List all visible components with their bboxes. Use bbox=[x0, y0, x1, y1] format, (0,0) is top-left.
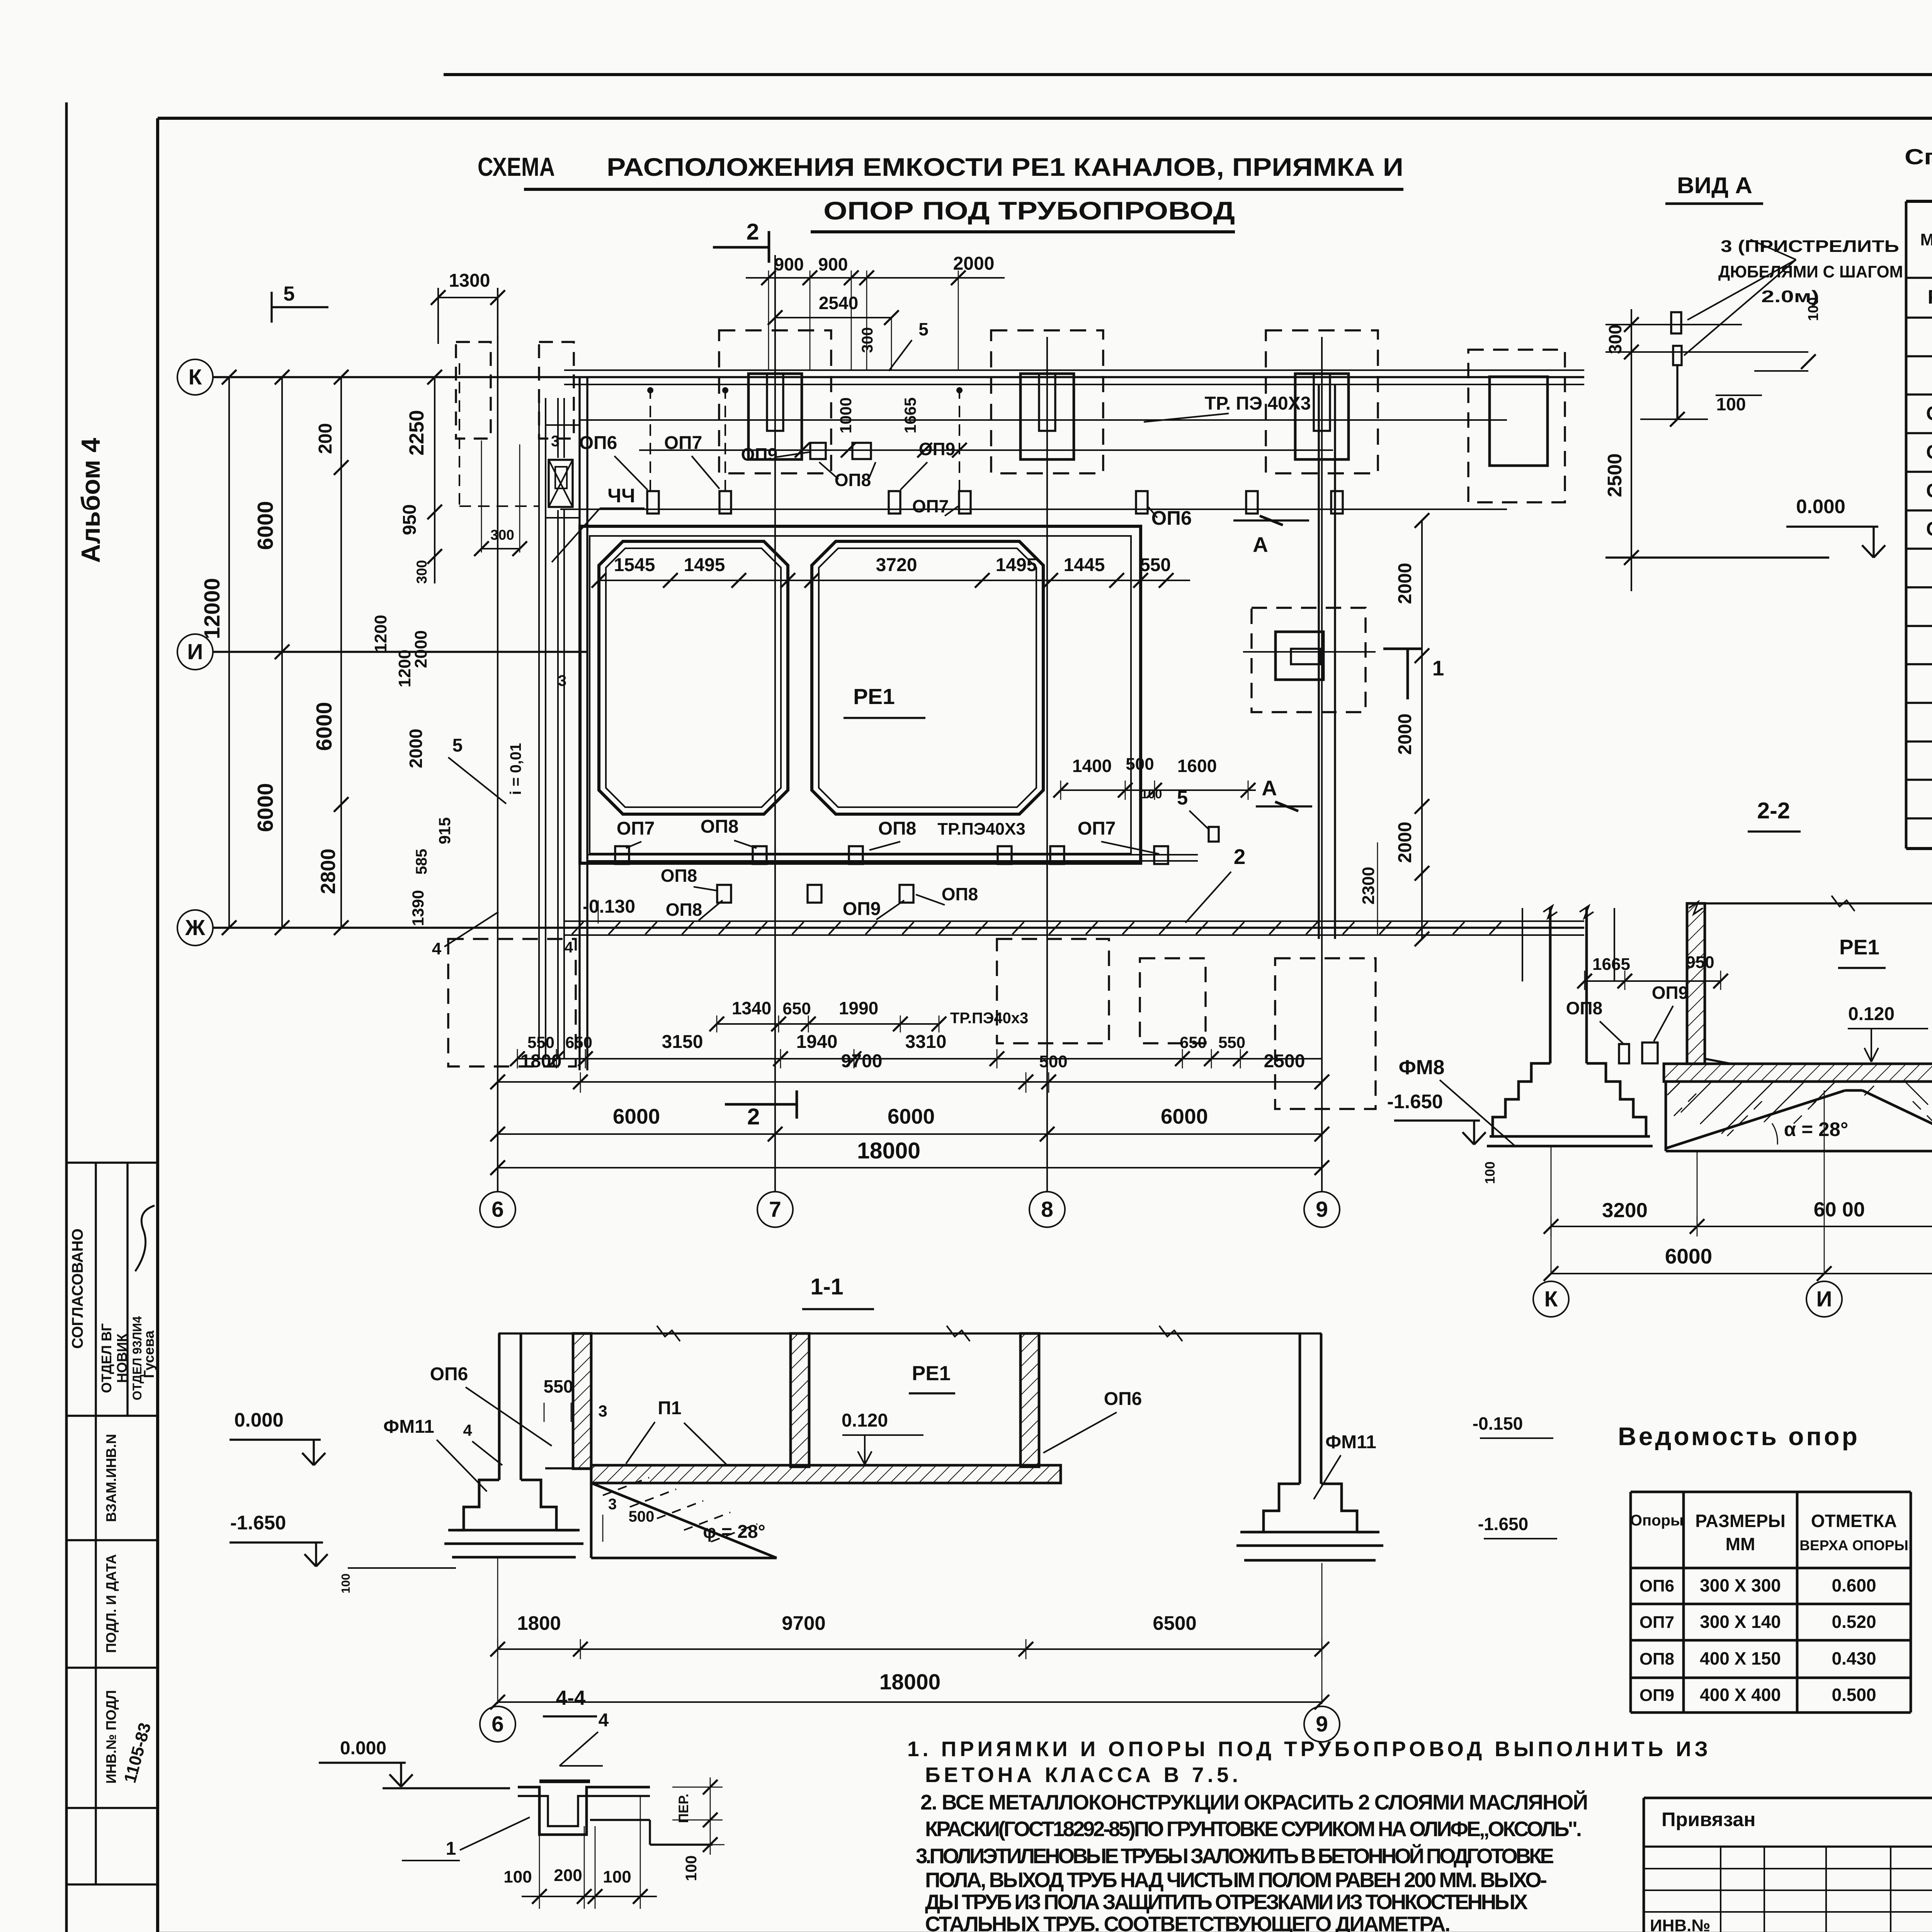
svg-text:А: А bbox=[1253, 532, 1268, 556]
svg-text:К: К bbox=[189, 365, 202, 389]
svg-text:Привязан: Привязан bbox=[1662, 1808, 1755, 1830]
svg-text:3200: 3200 bbox=[1602, 1199, 1648, 1222]
svg-text:4: 4 bbox=[565, 939, 573, 956]
svg-text:ОП8: ОП8 bbox=[835, 470, 871, 490]
svg-text:ОП8: ОП8 bbox=[701, 816, 739, 837]
svg-text:ОП7: ОП7 bbox=[1926, 441, 1932, 463]
svg-text:3: 3 bbox=[551, 433, 560, 450]
svg-text:300: 300 bbox=[1605, 325, 1625, 354]
svg-text:2: 2 bbox=[747, 1104, 760, 1129]
svg-text:ФМ11: ФМ11 bbox=[1325, 1432, 1376, 1452]
svg-text:ВЗАМ.ИНВ.N: ВЗАМ.ИНВ.N bbox=[103, 1434, 119, 1522]
svg-text:550: 550 bbox=[544, 1376, 573, 1396]
svg-text:4: 4 bbox=[599, 1710, 609, 1731]
svg-text:550: 550 bbox=[1218, 1033, 1245, 1051]
svg-text:6000: 6000 bbox=[253, 783, 278, 832]
svg-text:ОП7: ОП7 bbox=[1078, 818, 1116, 839]
svg-text:ОП6: ОП6 bbox=[430, 1364, 468, 1384]
svg-text:Гусева: Гусева bbox=[141, 1330, 157, 1378]
svg-text:СТАЛЬНЫХ ТРУБ. СООТВЕТСТВУЮЩ: СТАЛЬНЫХ ТРУБ. СООТВЕТСТВУЮЩЕГО ДИАМЕТРА… bbox=[925, 1912, 1451, 1932]
svg-text:400 X 150: 400 X 150 bbox=[1700, 1648, 1781, 1668]
svg-text:Марка: Марка bbox=[1920, 230, 1932, 249]
svg-text:4: 4 bbox=[463, 1421, 472, 1439]
svg-text:6000: 6000 bbox=[312, 702, 337, 751]
svg-text:6: 6 bbox=[492, 1197, 504, 1222]
svg-text:ОТДЕЛ ВГ: ОТДЕЛ ВГ bbox=[99, 1323, 114, 1393]
svg-text:ДЫ ТРУБ ИЗ ПОЛА ЗАЩИТИТЬ: ДЫ ТРУБ ИЗ ПОЛА ЗАЩИТИТЬ ОТРЕЗКАМИ ИЗ ТО… bbox=[925, 1890, 1528, 1914]
svg-text:550: 550 bbox=[527, 1033, 554, 1051]
svg-text:3: 3 bbox=[608, 1496, 617, 1513]
svg-text:6000: 6000 bbox=[1665, 1244, 1712, 1268]
svg-text:РЕ1: РЕ1 bbox=[912, 1362, 951, 1385]
svg-text:2300: 2300 bbox=[1359, 867, 1378, 905]
svg-text:К: К bbox=[1544, 1287, 1558, 1311]
svg-text:12000: 12000 bbox=[200, 578, 224, 639]
svg-text:1390: 1390 bbox=[409, 890, 427, 926]
svg-text:100: 100 bbox=[1716, 394, 1746, 414]
svg-text:ОП7: ОП7 bbox=[617, 818, 655, 839]
svg-text:1800: 1800 bbox=[517, 1612, 561, 1634]
svg-text:СОГЛАСОВАНО: СОГЛАСОВАНО bbox=[69, 1228, 86, 1349]
svg-text:585: 585 bbox=[413, 849, 430, 875]
svg-text:РЕ1: РЕ1 bbox=[1928, 286, 1932, 308]
svg-text:6000: 6000 bbox=[888, 1104, 935, 1128]
svg-text:1-1: 1-1 bbox=[810, 1274, 843, 1299]
svg-text:9700: 9700 bbox=[841, 1051, 883, 1071]
svg-text:4: 4 bbox=[432, 939, 442, 958]
svg-text:1: 1 bbox=[446, 1838, 456, 1859]
svg-text:0.120: 0.120 bbox=[1848, 1004, 1895, 1024]
svg-text:0.120: 0.120 bbox=[842, 1410, 888, 1431]
svg-text:ОП9: ОП9 bbox=[1652, 983, 1688, 1003]
svg-text:5: 5 bbox=[452, 735, 463, 756]
svg-text:100: 100 bbox=[603, 1867, 631, 1886]
svg-text:650: 650 bbox=[782, 999, 811, 1018]
svg-text:0.520: 0.520 bbox=[1832, 1612, 1876, 1632]
svg-text:1990: 1990 bbox=[839, 998, 878, 1018]
svg-text:ОП9: ОП9 bbox=[741, 444, 777, 464]
svg-text:950: 950 bbox=[1686, 953, 1714, 972]
svg-text:1200: 1200 bbox=[371, 615, 390, 653]
svg-text:100: 100 bbox=[1805, 297, 1821, 321]
svg-text:-1.650: -1.650 bbox=[1387, 1090, 1443, 1112]
svg-text:И: И bbox=[187, 639, 203, 664]
svg-text:2000: 2000 bbox=[412, 630, 430, 668]
svg-text:9700: 9700 bbox=[782, 1612, 825, 1634]
svg-text:5: 5 bbox=[918, 319, 929, 339]
svg-text:7: 7 bbox=[769, 1197, 781, 1222]
svg-text:100: 100 bbox=[683, 1855, 700, 1881]
svg-text:КРАСКИ(ГОСТ18292-85)ПО ГРУНТО: КРАСКИ(ГОСТ18292-85)ПО ГРУНТОВКЕ СУРИКОМ… bbox=[925, 1817, 1582, 1841]
svg-text:ЧЧ: ЧЧ bbox=[607, 485, 635, 507]
svg-text:0.600: 0.600 bbox=[1832, 1575, 1876, 1595]
svg-text:i = 0,01: i = 0,01 bbox=[507, 743, 524, 795]
svg-text:ОП6: ОП6 bbox=[1151, 507, 1192, 529]
svg-text:1445: 1445 bbox=[1064, 555, 1105, 575]
svg-text:1800: 1800 bbox=[520, 1051, 562, 1071]
svg-text:ФМ11: ФМ11 bbox=[383, 1417, 434, 1437]
svg-text:1665: 1665 bbox=[1592, 955, 1630, 974]
svg-text:100: 100 bbox=[339, 1573, 352, 1594]
svg-text:ОП8: ОП8 bbox=[942, 884, 978, 904]
svg-text:ИНВ.№ ПОДЛ: ИНВ.№ ПОДЛ bbox=[103, 1690, 119, 1784]
svg-text:1400: 1400 bbox=[1072, 756, 1112, 776]
svg-text:3310: 3310 bbox=[905, 1032, 947, 1052]
svg-text:650: 650 bbox=[565, 1033, 592, 1051]
svg-text:ПЕР.: ПЕР. bbox=[676, 1794, 691, 1823]
svg-text:0.430: 0.430 bbox=[1832, 1648, 1876, 1668]
svg-text:2: 2 bbox=[1234, 845, 1246, 869]
svg-text:-0.130: -0.130 bbox=[583, 896, 635, 917]
svg-text:ТР.ПЭ40х3: ТР.ПЭ40х3 bbox=[950, 1010, 1028, 1027]
svg-text:9: 9 bbox=[1316, 1712, 1328, 1736]
svg-text:0.000: 0.000 bbox=[340, 1738, 386, 1759]
svg-text:915: 915 bbox=[435, 817, 454, 844]
svg-text:ВЕРХА ОПОРЫ: ВЕРХА ОПОРЫ bbox=[1799, 1537, 1908, 1553]
svg-text:1600: 1600 bbox=[1177, 756, 1217, 776]
svg-text:300 X 300: 300 X 300 bbox=[1700, 1575, 1781, 1595]
svg-text:0.500: 0.500 bbox=[1832, 1685, 1876, 1705]
svg-text:1495: 1495 bbox=[684, 555, 725, 575]
svg-text:500: 500 bbox=[1039, 1052, 1067, 1071]
svg-text:650: 650 bbox=[1180, 1033, 1207, 1051]
svg-text:3150: 3150 bbox=[662, 1032, 703, 1052]
svg-text:500: 500 bbox=[1126, 755, 1154, 774]
svg-text:18000: 18000 bbox=[879, 1670, 941, 1694]
svg-text:950: 950 bbox=[400, 504, 420, 535]
svg-text:ФМ8: ФМ8 bbox=[1399, 1056, 1445, 1079]
svg-text:3: 3 bbox=[598, 1402, 607, 1420]
svg-text:5: 5 bbox=[1177, 787, 1188, 809]
svg-text:18000: 18000 bbox=[857, 1138, 920, 1163]
svg-text:α = 28°: α = 28° bbox=[1784, 1118, 1849, 1140]
svg-text:1665: 1665 bbox=[901, 397, 919, 433]
svg-text:РЕ1: РЕ1 bbox=[853, 684, 895, 709]
svg-text:РЕ1: РЕ1 bbox=[1839, 935, 1879, 959]
svg-text:ПОДЛ. И ДАТА: ПОДЛ. И ДАТА bbox=[103, 1554, 119, 1653]
svg-text:2. ВСЕ МЕТАЛЛОКОНСТРУКЦИИ ОК: 2. ВСЕ МЕТАЛЛОКОНСТРУКЦИИ ОКРАСИТЬ 2 СЛО… bbox=[920, 1790, 1588, 1814]
svg-text:ОП6: ОП6 bbox=[1926, 402, 1932, 424]
svg-text:2-2: 2-2 bbox=[1757, 798, 1790, 823]
svg-text:ОП9: ОП9 bbox=[919, 439, 955, 459]
svg-text:6000: 6000 bbox=[1161, 1104, 1208, 1128]
svg-text:550: 550 bbox=[1140, 555, 1171, 575]
svg-text:-1.650: -1.650 bbox=[1478, 1514, 1528, 1534]
svg-text:1940: 1940 bbox=[796, 1032, 838, 1052]
svg-text:0.000: 0.000 bbox=[1796, 495, 1845, 517]
svg-text:900: 900 bbox=[774, 254, 804, 274]
svg-text:9: 9 bbox=[1316, 1197, 1328, 1222]
svg-text:ММ: ММ bbox=[1726, 1534, 1755, 1554]
svg-text:0.000: 0.000 bbox=[234, 1409, 284, 1431]
svg-text:РАЗМЕРЫ: РАЗМЕРЫ bbox=[1695, 1511, 1785, 1531]
svg-text:Ж: Ж bbox=[185, 915, 205, 940]
svg-text:3 (ПРИСТРЕЛИТЬ: 3 (ПРИСТРЕЛИТЬ bbox=[1721, 237, 1899, 256]
svg-text:300: 300 bbox=[414, 560, 430, 584]
svg-text:1300: 1300 bbox=[449, 270, 490, 291]
svg-text:100: 100 bbox=[1483, 1162, 1498, 1184]
svg-text:100: 100 bbox=[1141, 787, 1162, 801]
svg-text:2000: 2000 bbox=[953, 253, 995, 274]
svg-text:ДЮБЕЛЯМИ С ШАГОМ: ДЮБЕЛЯМИ С ШАГОМ bbox=[1718, 262, 1903, 281]
svg-text:60 00: 60 00 bbox=[1814, 1198, 1865, 1221]
svg-text:ОП9: ОП9 bbox=[843, 899, 881, 919]
svg-text:6000: 6000 bbox=[253, 501, 278, 550]
svg-text:3720: 3720 bbox=[876, 555, 917, 575]
svg-text:2800: 2800 bbox=[317, 849, 340, 894]
svg-text:2000: 2000 bbox=[1395, 822, 1415, 863]
svg-text:1000: 1000 bbox=[837, 397, 855, 433]
svg-text:ТР.ПЭ40Х3: ТР.ПЭ40Х3 bbox=[937, 820, 1026, 838]
svg-text:ОП7: ОП7 bbox=[664, 433, 702, 453]
svg-text:ИНВ.№: ИНВ.№ bbox=[1650, 1916, 1710, 1932]
svg-text:300: 300 bbox=[859, 327, 876, 353]
svg-text:ОП8: ОП8 bbox=[1926, 480, 1932, 502]
svg-text:6000: 6000 bbox=[613, 1104, 660, 1128]
svg-text:ОП8: ОП8 bbox=[1639, 1650, 1674, 1668]
svg-text:Опоры: Опоры bbox=[1630, 1512, 1684, 1529]
svg-text:φ = 28°: φ = 28° bbox=[703, 1522, 765, 1542]
svg-text:А: А bbox=[1262, 776, 1277, 800]
svg-text:2540: 2540 bbox=[819, 293, 858, 313]
svg-text:6500: 6500 bbox=[1153, 1612, 1196, 1634]
svg-text:РАСПОЛОЖЕНИЯ ЕМКОСТИ РЕ1 КА: РАСПОЛОЖЕНИЯ ЕМКОСТИ РЕ1 КАНАЛОВ, ПРИЯМК… bbox=[607, 153, 1403, 181]
svg-text:2250: 2250 bbox=[405, 410, 428, 456]
svg-text:И: И bbox=[1816, 1287, 1832, 1311]
svg-text:2500: 2500 bbox=[1604, 453, 1626, 497]
svg-text:-0.150: -0.150 bbox=[1473, 1413, 1523, 1434]
svg-text:ОПОР ПОД ТРУБОПРОВОД: ОПОР ПОД ТРУБОПРОВОД bbox=[823, 196, 1235, 225]
svg-text:СХЕМА: СХЕМА bbox=[478, 152, 555, 182]
svg-text:1. ПРИЯМКИ И ОПОРЫ ПОД ТРУ: 1. ПРИЯМКИ И ОПОРЫ ПОД ТРУБОПРОВОД ВЫПОЛ… bbox=[907, 1737, 1708, 1761]
svg-text:П1: П1 bbox=[658, 1398, 681, 1418]
svg-text:1545: 1545 bbox=[614, 555, 655, 575]
svg-text:1: 1 bbox=[1432, 656, 1444, 680]
svg-text:ОП6: ОП6 bbox=[579, 433, 617, 453]
svg-text:Спецификация к схеме распо: Спецификация к схеме расположения емкост… bbox=[1905, 145, 1932, 169]
svg-text:2500: 2500 bbox=[1264, 1051, 1305, 1071]
svg-text:900: 900 bbox=[818, 254, 848, 274]
svg-text:6: 6 bbox=[492, 1712, 504, 1736]
svg-text:ОП9: ОП9 bbox=[1639, 1686, 1674, 1705]
svg-text:ОП8: ОП8 bbox=[1566, 998, 1602, 1018]
svg-text:ОП9: ОП9 bbox=[1926, 518, 1932, 540]
svg-text:4-4: 4-4 bbox=[556, 1687, 586, 1709]
svg-text:5: 5 bbox=[283, 282, 294, 305]
svg-text:Альбом 4: Альбом 4 bbox=[76, 438, 105, 563]
svg-text:ОП8: ОП8 bbox=[666, 900, 702, 920]
svg-text:400 X 400: 400 X 400 bbox=[1700, 1685, 1781, 1705]
svg-text:ОП6: ОП6 bbox=[1104, 1389, 1142, 1409]
svg-text:-1.650: -1.650 bbox=[230, 1512, 286, 1534]
svg-text:ТР. ПЭ 40Х3: ТР. ПЭ 40Х3 bbox=[1205, 393, 1311, 414]
svg-text:ОТМЕТКА: ОТМЕТКА bbox=[1811, 1511, 1897, 1531]
svg-text:1495: 1495 bbox=[996, 555, 1037, 575]
svg-text:НОВИК: НОВИК bbox=[114, 1333, 130, 1383]
svg-text:2: 2 bbox=[747, 219, 759, 245]
svg-text:8: 8 bbox=[1041, 1197, 1053, 1222]
svg-text:2000: 2000 bbox=[1395, 714, 1415, 755]
svg-text:ПОЛА, ВЫХОД ТРУБ НАД ЧИСТЫМ: ПОЛА, ВЫХОД ТРУБ НАД ЧИСТЫМ ПОЛОМ РАВЕН … bbox=[925, 1868, 1547, 1892]
svg-text:ОП8: ОП8 bbox=[661, 866, 697, 886]
svg-text:3: 3 bbox=[558, 672, 566, 689]
svg-text:ОП8: ОП8 bbox=[878, 818, 917, 839]
svg-text:2000: 2000 bbox=[406, 729, 426, 768]
svg-text:Ведомость опор: Ведомость опор bbox=[1618, 1422, 1860, 1451]
svg-text:3.ПОЛИЭТИЛЕНОВЫЕ ТРУБЫ ЗАЛОЖ: 3.ПОЛИЭТИЛЕНОВЫЕ ТРУБЫ ЗАЛОЖИТЬ В БЕТОНН… bbox=[916, 1844, 1554, 1868]
svg-text:1340: 1340 bbox=[732, 998, 771, 1018]
svg-text:ОП7: ОП7 bbox=[1639, 1613, 1674, 1632]
svg-text:2000: 2000 bbox=[1395, 563, 1415, 604]
svg-text:ОП7: ОП7 bbox=[912, 496, 949, 516]
svg-text:200: 200 bbox=[554, 1866, 582, 1885]
svg-text:500: 500 bbox=[629, 1508, 655, 1525]
svg-text:200: 200 bbox=[315, 423, 336, 454]
svg-text:300 X 140: 300 X 140 bbox=[1700, 1612, 1781, 1632]
svg-text:ВИД А: ВИД А bbox=[1677, 173, 1752, 198]
svg-text:ОП6: ОП6 bbox=[1639, 1577, 1674, 1595]
svg-text:100: 100 bbox=[503, 1867, 532, 1886]
svg-text:300: 300 bbox=[490, 527, 514, 543]
